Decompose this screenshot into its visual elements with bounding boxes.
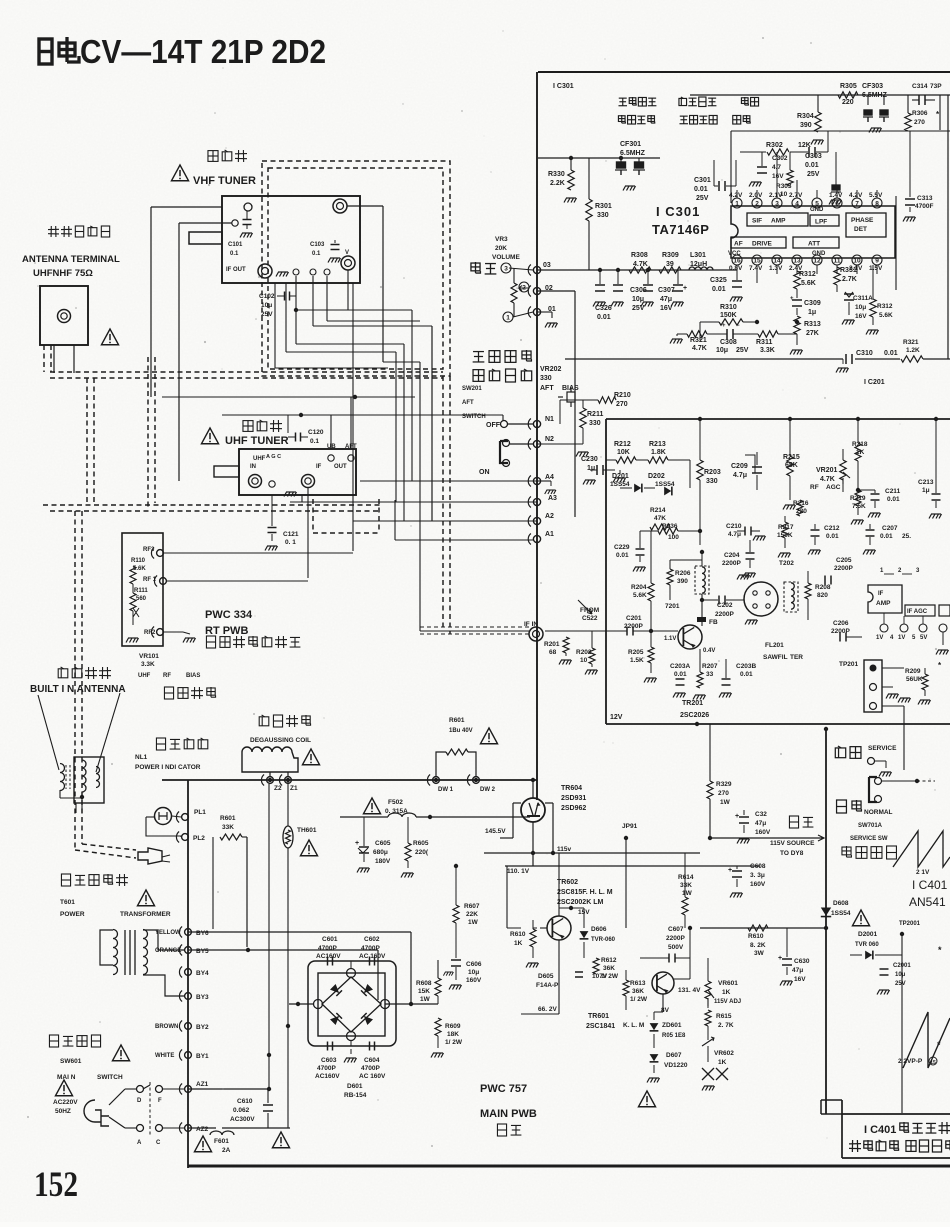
svg-text:OFF: OFF	[486, 422, 501, 429]
svg-text:5.6K: 5.6K	[801, 280, 816, 287]
svg-text:1W: 1W	[420, 996, 431, 1003]
svg-text:TR201: TR201	[682, 700, 703, 707]
svg-text:131. 4V: 131. 4V	[678, 987, 701, 994]
svg-text:36K: 36K	[632, 988, 644, 995]
svg-text:PL2: PL2	[193, 835, 205, 842]
svg-text:5.5V: 5.5V	[869, 192, 883, 199]
svg-text:6: 6	[835, 201, 839, 208]
svg-text:R209: R209	[905, 668, 921, 675]
svg-text:10: 10	[853, 258, 861, 265]
svg-text:4: 4	[795, 201, 799, 208]
svg-text:RT PWB: RT PWB	[205, 625, 248, 637]
svg-text:N2: N2	[545, 436, 554, 443]
svg-text:0.01: 0.01	[674, 671, 687, 678]
svg-text:4.7K: 4.7K	[692, 345, 707, 352]
svg-text:160V: 160V	[755, 829, 771, 836]
svg-text:R310: R310	[720, 304, 737, 311]
svg-text:680μ: 680μ	[373, 849, 388, 856]
svg-text:ORANGE: ORANGE	[155, 948, 181, 954]
svg-text:BY4: BY4	[196, 970, 209, 977]
svg-text:C603: C603	[321, 1057, 337, 1064]
svg-text:R207: R207	[702, 663, 718, 670]
svg-text:C303: C303	[805, 153, 822, 160]
svg-text:R601: R601	[449, 717, 465, 724]
svg-text:2SC2026: 2SC2026	[680, 712, 709, 719]
svg-text:47μ: 47μ	[660, 296, 672, 303]
svg-text:C310: C310	[856, 350, 873, 357]
svg-text:VCC: VCC	[728, 251, 741, 257]
svg-text:R203: R203	[704, 469, 721, 476]
svg-text:R313: R313	[804, 321, 821, 328]
svg-text:C607: C607	[668, 926, 684, 933]
svg-text:UHF: UHF	[253, 456, 266, 462]
svg-text:R311: R311	[756, 339, 772, 346]
svg-text:R204: R204	[631, 584, 647, 591]
svg-text:8. 2K: 8. 2K	[750, 942, 766, 949]
svg-text:TRANSFORMER: TRANSFORMER	[120, 911, 171, 918]
svg-text:Z2: Z2	[274, 785, 282, 792]
svg-text:2. 7K: 2. 7K	[718, 1022, 734, 1029]
svg-text:0.8V: 0.8V	[729, 265, 743, 272]
svg-text:+: +	[735, 813, 739, 820]
svg-text:C604: C604	[364, 1057, 380, 1064]
svg-text:R216: R216	[793, 500, 809, 507]
svg-text:AC 160V: AC 160V	[359, 953, 386, 960]
svg-text:7201: 7201	[665, 603, 680, 610]
svg-text:DEGAUSSING COIL: DEGAUSSING COIL	[250, 737, 311, 744]
svg-text:R329: R329	[716, 781, 732, 788]
svg-text:BIAS: BIAS	[186, 673, 200, 679]
svg-text:SW201: SW201	[462, 386, 482, 392]
svg-text:330: 330	[597, 212, 609, 219]
svg-text:107V: 107V	[592, 973, 608, 980]
svg-text:390: 390	[800, 122, 812, 129]
svg-text:IF AGC: IF AGC	[907, 609, 928, 615]
svg-text:C: C	[156, 1140, 161, 1146]
svg-text:2: 2	[755, 201, 759, 208]
svg-text:C608: C608	[750, 863, 766, 870]
svg-text:1W: 1W	[682, 890, 693, 897]
svg-text:TR604: TR604	[561, 785, 582, 792]
svg-text:R321: R321	[903, 339, 919, 346]
svg-text:8: 8	[875, 201, 879, 208]
svg-text:1.5K: 1.5K	[630, 657, 644, 664]
svg-text:R304: R304	[797, 113, 814, 120]
svg-text:1.3V: 1.3V	[769, 265, 783, 272]
svg-text:D608: D608	[833, 900, 849, 907]
svg-text:C307: C307	[658, 287, 675, 294]
svg-text:R212: R212	[614, 441, 631, 448]
svg-text:C203A: C203A	[670, 663, 691, 670]
svg-text:3: 3	[504, 266, 508, 273]
svg-text:33K: 33K	[222, 824, 234, 831]
svg-text:RF: RF	[810, 484, 819, 491]
svg-text:UB: UB	[327, 444, 336, 450]
svg-text:R601: R601	[220, 815, 236, 822]
svg-text:RF2: RF2	[144, 630, 156, 636]
svg-text:C213: C213	[918, 479, 934, 486]
svg-text:OUT: OUT	[334, 464, 347, 470]
svg-text:R210: R210	[614, 392, 631, 399]
svg-text:C32: C32	[755, 811, 767, 818]
svg-text:R610: R610	[748, 933, 764, 940]
svg-text:C207: C207	[882, 525, 898, 532]
svg-text:T202: T202	[779, 560, 794, 567]
svg-text:C101: C101	[228, 242, 243, 248]
svg-text:152: 152	[34, 1164, 78, 1204]
svg-text:0.01: 0.01	[712, 286, 726, 293]
svg-text:C306: C306	[630, 287, 647, 294]
svg-text:180V: 180V	[375, 858, 391, 865]
svg-text:1.5V: 1.5V	[869, 265, 883, 272]
svg-text:ATT: ATT	[808, 241, 820, 248]
svg-text:500V: 500V	[668, 944, 684, 951]
svg-text:CF303: CF303	[862, 83, 883, 90]
svg-text:DET: DET	[854, 226, 867, 233]
svg-text:BY6: BY6	[196, 930, 209, 937]
svg-text:A3: A3	[548, 495, 557, 502]
svg-text:15: 15	[753, 258, 761, 265]
svg-text:1SS54: 1SS54	[831, 910, 851, 917]
svg-text:0.01: 0.01	[740, 671, 753, 678]
svg-text:VD1220: VD1220	[664, 1062, 688, 1069]
svg-text:N1: N1	[545, 416, 554, 423]
svg-text:SW601: SW601	[60, 1058, 82, 1065]
svg-text:D606: D606	[591, 926, 607, 933]
svg-text:2.0V: 2.0V	[749, 192, 763, 199]
svg-text:+: +	[683, 285, 687, 292]
svg-text:PHASE: PHASE	[851, 217, 874, 224]
svg-text:ON: ON	[479, 469, 490, 476]
svg-text:10μ: 10μ	[716, 347, 728, 354]
svg-text:BUILT I N ANTENNA: BUILT I N ANTENNA	[30, 684, 126, 695]
svg-text:5V: 5V	[920, 635, 927, 641]
svg-text:C605: C605	[375, 840, 391, 847]
svg-text:T601: T601	[60, 899, 75, 906]
svg-text:270: 270	[914, 119, 925, 126]
svg-text:3. 3μ: 3. 3μ	[750, 872, 765, 879]
svg-text:IF OUT: IF OUT	[226, 267, 246, 273]
svg-text:1V: 1V	[876, 635, 883, 641]
svg-text:SERVICE SW: SERVICE SW	[850, 836, 888, 842]
svg-text:1: 1	[506, 315, 510, 322]
svg-text:DW 1: DW 1	[438, 787, 454, 793]
svg-text:C201: C201	[626, 615, 642, 622]
svg-text:SERVICE: SERVICE	[868, 745, 897, 752]
svg-text:R312: R312	[877, 303, 893, 310]
svg-text:220: 220	[796, 508, 807, 515]
svg-text:R301: R301	[595, 203, 612, 210]
svg-text:R201: R201	[544, 641, 560, 648]
svg-text:D202: D202	[648, 473, 665, 480]
svg-text:3.3K: 3.3K	[760, 347, 775, 354]
svg-text:MAIN PWB: MAIN PWB	[480, 1108, 537, 1120]
svg-text:1K: 1K	[718, 1059, 727, 1066]
svg-text:2 2VP-P: 2 2VP-P	[898, 1058, 923, 1065]
svg-text:1μ: 1μ	[808, 309, 816, 316]
svg-text:PWC 757: PWC 757	[480, 1083, 527, 1095]
svg-text:I C301: I C301	[553, 83, 574, 90]
svg-text:0.01: 0.01	[616, 552, 629, 559]
svg-text:C121: C121	[283, 531, 299, 538]
svg-text:A4: A4	[545, 474, 554, 481]
svg-text:4.7K: 4.7K	[633, 261, 648, 268]
svg-text:2.7K: 2.7K	[842, 276, 857, 283]
svg-text:25V: 25V	[696, 195, 709, 202]
svg-text:330: 330	[706, 478, 718, 485]
svg-text:C522: C522	[582, 615, 598, 622]
svg-text:3: 3	[775, 201, 779, 208]
svg-text:12: 12	[813, 258, 821, 265]
svg-text:R609: R609	[445, 1023, 461, 1030]
svg-text:AN541: AN541	[909, 895, 946, 909]
svg-text:F502: F502	[388, 799, 403, 806]
svg-text:F601: F601	[214, 1138, 229, 1145]
svg-text:1: 1	[735, 201, 739, 208]
svg-text:3.3K: 3.3K	[141, 661, 155, 668]
svg-text:POWER: POWER	[60, 911, 85, 918]
svg-text:DW 2: DW 2	[480, 787, 496, 793]
svg-text:+: +	[355, 840, 359, 847]
svg-text:−: −	[736, 323, 740, 329]
svg-text:R607: R607	[464, 903, 480, 910]
svg-text:16V: 16V	[855, 313, 867, 320]
svg-text:5.6K: 5.6K	[879, 312, 893, 319]
svg-text:TA7146P: TA7146P	[652, 222, 709, 237]
svg-text:2SD931: 2SD931	[561, 795, 586, 802]
svg-text:D2001: D2001	[858, 931, 878, 938]
svg-text:R612: R612	[601, 957, 617, 964]
svg-text:POWER I NDI CATOR: POWER I NDI CATOR	[135, 764, 201, 771]
svg-text:R110: R110	[131, 558, 146, 564]
svg-text:C2001: C2001	[893, 963, 911, 969]
svg-text:SAWFIL: SAWFIL	[763, 654, 788, 661]
svg-text:VR601: VR601	[718, 980, 738, 987]
svg-text:CV—14T 21P 2D2: CV—14T 21P 2D2	[80, 33, 326, 70]
svg-text:IN: IN	[250, 464, 256, 470]
svg-text:2.7V: 2.7V	[789, 192, 803, 199]
svg-text:C120: C120	[308, 429, 324, 436]
svg-text:C325: C325	[710, 277, 727, 284]
svg-text:R331: R331	[840, 267, 857, 274]
svg-text:0.1: 0.1	[310, 438, 319, 445]
svg-text:C313: C313	[917, 195, 933, 202]
svg-text:27K: 27K	[806, 330, 819, 337]
svg-text:1/ 2W: 1/ 2W	[445, 1039, 463, 1046]
svg-text:ANTENNA TERMINAL: ANTENNA TERMINAL	[22, 254, 120, 265]
svg-text:C601: C601	[322, 936, 338, 943]
svg-text:TR602: TR602	[557, 879, 578, 886]
svg-text:2200P: 2200P	[722, 560, 741, 567]
svg-text:C212: C212	[824, 525, 840, 532]
svg-text:1K: 1K	[722, 989, 731, 996]
svg-text:2200P: 2200P	[715, 611, 734, 618]
svg-text:*: *	[937, 1040, 941, 1050]
svg-text:145.5V: 145.5V	[485, 828, 506, 835]
svg-text:1.8K: 1.8K	[651, 449, 666, 456]
svg-text:1K: 1K	[514, 940, 523, 947]
svg-text:AFT: AFT	[345, 444, 357, 450]
svg-text:D605: D605	[538, 973, 554, 980]
svg-text:33: 33	[706, 671, 714, 678]
svg-text:C610: C610	[237, 1098, 253, 1105]
svg-text:66. 2V: 66. 2V	[538, 1006, 557, 1013]
svg-text:15: 15	[930, 1060, 936, 1066]
svg-text:D: D	[137, 1098, 142, 1104]
svg-text:R05 1E8: R05 1E8	[662, 1033, 686, 1039]
svg-text:220(: 220(	[415, 849, 429, 856]
svg-text:R305: R305	[840, 83, 857, 90]
svg-text:R219: R219	[850, 495, 866, 502]
svg-text:25V: 25V	[895, 981, 906, 987]
svg-text:10K: 10K	[617, 449, 630, 456]
svg-text:V: V	[345, 250, 349, 256]
svg-text:R308: R308	[631, 252, 648, 259]
svg-text:TP201: TP201	[839, 661, 859, 668]
svg-text:7: 7	[855, 201, 859, 208]
svg-text:C209: C209	[731, 463, 748, 470]
svg-text:115V ADJ: 115V ADJ	[714, 999, 741, 1005]
svg-text:AGC: AGC	[826, 484, 841, 491]
svg-text:10μ: 10μ	[468, 969, 479, 976]
svg-text:AZ2: AZ2	[196, 1126, 209, 1133]
svg-text:0.01: 0.01	[887, 496, 900, 503]
svg-text:C210: C210	[726, 523, 742, 530]
svg-text:4.7μ: 4.7μ	[733, 472, 747, 479]
svg-text:AZ1: AZ1	[196, 1081, 209, 1088]
svg-text:AC 160V: AC 160V	[359, 1073, 386, 1080]
svg-text:R306: R306	[912, 110, 928, 117]
svg-text:R614: R614	[678, 874, 694, 881]
svg-text:0.062: 0.062	[233, 1107, 250, 1114]
svg-text:2SC1841: 2SC1841	[586, 1023, 615, 1030]
svg-text:K. L. M: K. L. M	[623, 1022, 644, 1029]
svg-text:150K: 150K	[720, 312, 737, 319]
svg-text:IF: IF	[878, 591, 884, 597]
svg-text:R208: R208	[815, 584, 831, 591]
svg-text:TP2001: TP2001	[899, 921, 921, 927]
svg-text:115V SOURCE: 115V SOURCE	[770, 840, 815, 847]
svg-text:R608: R608	[416, 980, 432, 987]
svg-text:+: +	[778, 955, 782, 962]
svg-text:BY3: BY3	[196, 994, 209, 1001]
svg-text:RB-154: RB-154	[344, 1092, 367, 1099]
svg-text:R217: R217	[778, 524, 794, 531]
svg-text:I C401: I C401	[912, 878, 948, 892]
svg-text:C602: C602	[364, 936, 380, 943]
svg-text:56UK: 56UK	[906, 676, 923, 683]
svg-text:SW701A: SW701A	[858, 823, 883, 829]
svg-text:1W: 1W	[468, 919, 479, 926]
svg-text:47K: 47K	[654, 515, 666, 522]
svg-text:A G C: A G C	[266, 454, 281, 460]
svg-text:R309: R309	[662, 252, 679, 259]
svg-text:R610: R610	[510, 931, 526, 938]
svg-text:0.01: 0.01	[880, 533, 893, 540]
svg-text:4700F: 4700F	[915, 203, 933, 210]
svg-text:68K: 68K	[785, 462, 798, 469]
svg-text:2 1V: 2 1V	[916, 869, 930, 876]
svg-text:+: +	[790, 296, 794, 302]
svg-text:R312: R312	[799, 271, 816, 278]
svg-text:0.1: 0.1	[230, 251, 239, 257]
svg-text:R302: R302	[766, 142, 783, 149]
svg-text:F14A-P: F14A-P	[536, 982, 559, 989]
svg-text:UHF: UHF	[138, 673, 151, 679]
svg-text:4.7K: 4.7K	[820, 476, 835, 483]
svg-text:12V: 12V	[610, 714, 623, 721]
svg-text:TVR-060: TVR-060	[591, 937, 616, 943]
svg-text:R605: R605	[413, 840, 429, 847]
svg-text:JP91: JP91	[622, 823, 638, 830]
svg-text:AFT: AFT	[462, 400, 474, 406]
svg-text:GND: GND	[812, 251, 826, 257]
svg-text:C211: C211	[885, 488, 901, 495]
svg-text:2SD962: 2SD962	[561, 805, 586, 812]
svg-text:TER: TER	[790, 654, 803, 661]
svg-text:1.2K: 1.2K	[906, 347, 920, 354]
svg-text:AC220V: AC220V	[53, 1099, 78, 1106]
svg-text:2SC815F. H. L. M: 2SC815F. H. L. M	[557, 889, 613, 896]
svg-text:10: 10	[580, 657, 588, 664]
svg-text:8V: 8V	[661, 1007, 670, 1014]
svg-text:0.1: 0.1	[312, 251, 321, 257]
svg-text:10μ: 10μ	[895, 972, 906, 978]
svg-text:TO DY8: TO DY8	[780, 850, 804, 857]
svg-text:WHITE: WHITE	[155, 1053, 174, 1059]
svg-text:0.01: 0.01	[694, 186, 708, 193]
svg-text:FB: FB	[709, 619, 718, 626]
svg-text:BROWN: BROWN	[155, 1024, 178, 1030]
svg-text:VR101: VR101	[139, 653, 159, 660]
svg-text:C103: C103	[310, 242, 325, 248]
svg-text:16V: 16V	[772, 173, 784, 180]
svg-text:0. 1: 0. 1	[285, 539, 296, 546]
svg-text:R213: R213	[649, 441, 666, 448]
svg-text:150K: 150K	[777, 532, 793, 539]
svg-text:R321: R321	[690, 337, 707, 344]
svg-text:33K: 33K	[680, 882, 692, 889]
svg-text:16: 16	[733, 258, 741, 265]
svg-text:NORMAL: NORMAL	[864, 809, 893, 816]
svg-text:25V: 25V	[807, 171, 820, 178]
svg-text:39: 39	[666, 261, 674, 268]
svg-text:C314: C314	[912, 83, 928, 90]
svg-text:TR601: TR601	[588, 1013, 609, 1020]
svg-text:CF301: CF301	[620, 141, 641, 148]
svg-text:330: 330	[589, 420, 601, 427]
svg-text:03: 03	[543, 262, 551, 269]
svg-text:1μ: 1μ	[922, 487, 930, 494]
svg-text:R202: R202	[576, 649, 592, 656]
svg-text:25V: 25V	[736, 347, 749, 354]
svg-text:18K: 18K	[447, 1031, 459, 1038]
svg-text:DRIVE: DRIVE	[752, 241, 773, 248]
svg-text:R206: R206	[675, 570, 691, 577]
svg-text:0.01: 0.01	[805, 162, 819, 169]
svg-text:VR602: VR602	[714, 1050, 734, 1057]
svg-text:25V: 25V	[261, 311, 273, 318]
svg-text:1μ: 1μ	[587, 465, 595, 472]
svg-text:12μH: 12μH	[690, 261, 707, 268]
svg-text:10μ: 10μ	[632, 296, 644, 303]
svg-text:C230: C230	[581, 456, 598, 463]
svg-text:BY5: BY5	[196, 948, 209, 955]
svg-text:16V: 16V	[660, 305, 673, 312]
svg-text:C205: C205	[836, 557, 852, 564]
svg-text:C206: C206	[833, 620, 849, 627]
svg-text:C630: C630	[794, 958, 810, 965]
